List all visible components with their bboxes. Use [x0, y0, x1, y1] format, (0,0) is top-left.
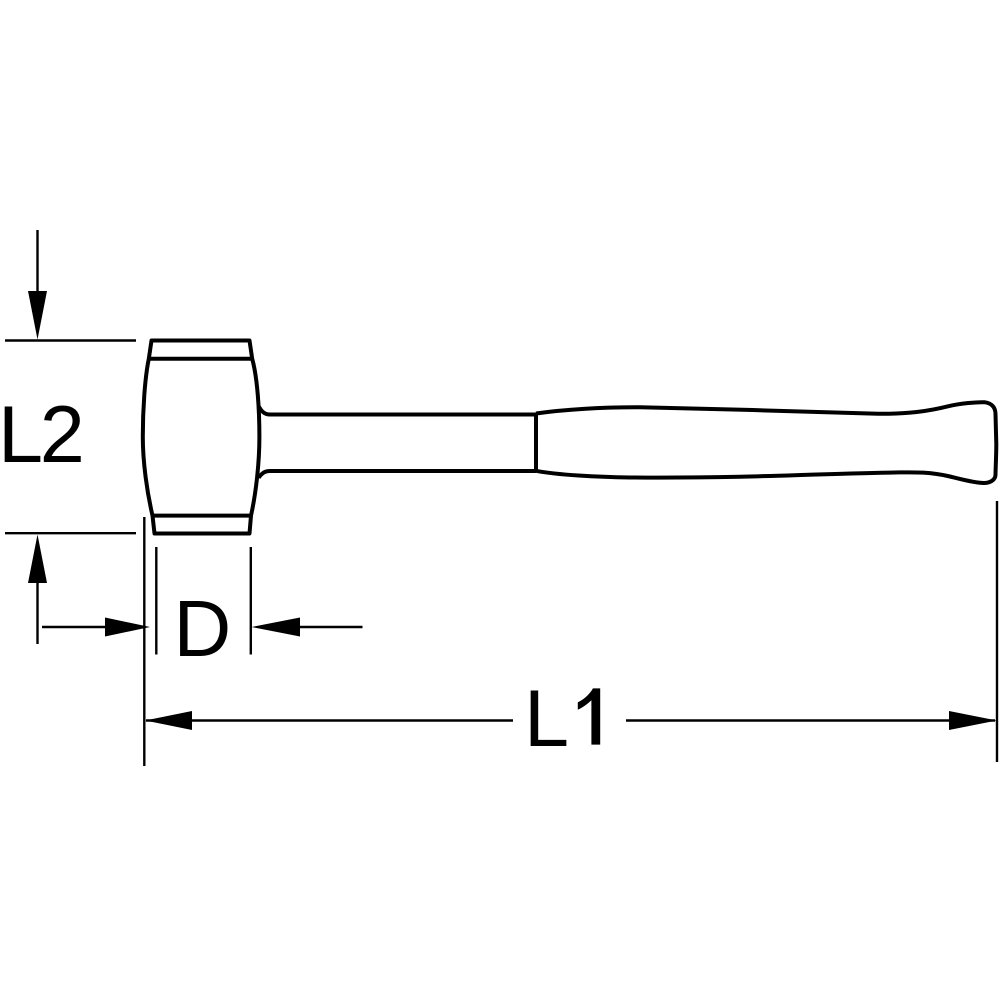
label L1 digit 1: [578, 688, 600, 744]
D left arrow line: [42, 626, 110, 628]
head bottom inner line: [153, 514, 252, 518]
L1 right extension line: [996, 501, 998, 762]
D right arrow line: [297, 626, 363, 628]
L2 up arrow shaft: [36, 580, 38, 644]
D left extension line: [155, 547, 157, 655]
head top inner line: [149, 357, 252, 361]
L1 dimension line right segment: [626, 719, 995, 721]
L2 bottom extension line: [5, 532, 136, 534]
L1 left extension line: [143, 517, 145, 766]
head barrel body: [143, 341, 260, 534]
mallet head outline: [143, 341, 260, 534]
svg-text:D: D: [174, 584, 232, 673]
L1 left arrowhead: [145, 711, 192, 730]
D right extension line: [250, 547, 252, 655]
svg-text:L: L: [524, 674, 569, 764]
L2 down arrow shaft: [36, 230, 38, 294]
handle grip left edge: [534, 415, 538, 472]
L2 top extension line: [5, 339, 136, 341]
handle grip outline: [536, 402, 996, 483]
L1 right arrowhead: [949, 711, 997, 730]
svg-text:L2: L2: [0, 390, 82, 480]
D left arrowhead: [105, 618, 150, 637]
L2 up arrowhead: [28, 535, 47, 584]
D right arrowhead: [252, 618, 301, 637]
L2 down arrowhead: [28, 291, 47, 340]
shaft top edge: [259, 406, 536, 415]
dimension graphics: [5, 230, 997, 766]
handle shaft: [259, 402, 997, 483]
L1 dimension line left segment: [146, 719, 513, 721]
shaft bottom edge: [259, 471, 536, 478]
